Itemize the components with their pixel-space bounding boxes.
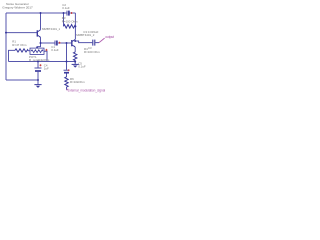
svg-text:0.1uF: 0.1uF bbox=[78, 65, 86, 69]
transistor Q2 emitter arrow bbox=[74, 46, 76, 48]
potentiometer POT1 bbox=[30, 48, 44, 54]
wire C5 to R6 bbox=[66, 73, 68, 77]
wire R1 to POT1 bbox=[28, 50, 30, 52]
svg-text:output: output bbox=[105, 35, 114, 39]
svg-text:0.1uF: 0.1uF bbox=[51, 48, 59, 52]
svg-text:R=47 Ohm: R=47 Ohm bbox=[12, 43, 27, 47]
wire Q1 emitter to node A bbox=[40, 37, 42, 43]
wire R1 loop bbox=[9, 50, 16, 61]
wire right rail (rail corner to Q2 collector) bbox=[74, 13, 76, 39]
node rail-Q1 base wire bbox=[5, 32, 7, 34]
wire Q2 emitter to R4 bbox=[74, 47, 76, 52]
svg-text:R=100 Ohm: R=100 Ohm bbox=[62, 19, 78, 23]
svg-text:1uF: 1uF bbox=[44, 67, 49, 71]
potentiometer POT1 wiper arrow bbox=[36, 47, 38, 49]
transistor Q1 emitter arrow bbox=[39, 36, 41, 38]
wire node B drop to bottom bus bbox=[66, 43, 68, 62]
wire ground stub right bbox=[74, 62, 76, 65]
wire left rail bbox=[5, 13, 7, 80]
capacitor C4 bbox=[35, 64, 42, 71]
potentiometer POT1 label bbox=[29, 55, 50, 62]
wire bottom bus bbox=[9, 61, 76, 63]
wire Q2 collector to C3 output bbox=[75, 41, 92, 43]
node Q2 collector-output bbox=[74, 40, 76, 42]
svg-text:0.1uF: 0.1uF bbox=[62, 6, 70, 10]
wire Q1 collector drop bbox=[40, 13, 42, 30]
node C4-ground wire bbox=[37, 79, 39, 81]
wire R4 bottom to bus/ground bbox=[74, 60, 76, 63]
capacitor C2 bbox=[67, 11, 73, 16]
capacitor C3 bbox=[93, 40, 95, 46]
transistor Q2 bbox=[72, 39, 75, 47]
ground (right, below R4) bbox=[72, 64, 79, 67]
svg-text:R=100 Ohm: R=100 Ohm bbox=[84, 50, 100, 54]
node bus-C4 bbox=[37, 61, 39, 63]
node A emitter junction bbox=[40, 42, 42, 44]
resistor R4 label bbox=[84, 47, 100, 54]
resistor R6 label bbox=[70, 77, 85, 84]
wire C3 to output flag bbox=[95, 42, 99, 44]
red marker near POT1 pin bbox=[45, 49, 47, 51]
capacitor C5 bbox=[64, 69, 70, 72]
svg-text:R=10kOhm: R=10kOhm bbox=[70, 80, 85, 84]
title text bbox=[2, 2, 33, 9]
wire node A to C1 bbox=[41, 42, 55, 44]
svg-text:C3: C3 bbox=[88, 46, 92, 50]
node rail-Q1 bbox=[40, 12, 42, 14]
wire left rail to Q1 base bbox=[6, 32, 37, 34]
wire C1 to Q2 base bbox=[58, 42, 72, 44]
wire top rail bbox=[6, 12, 75, 14]
svg-text:MMBT4401_2: MMBT4401_2 bbox=[76, 33, 95, 37]
resistor R3 bbox=[64, 25, 76, 29]
resistor R1 label bbox=[12, 40, 27, 47]
net label external_modulation_signal bbox=[67, 89, 69, 90]
node R3-collector rail bbox=[74, 25, 76, 27]
svg-text:external_modulation_signal: external_modulation_signal bbox=[68, 89, 106, 93]
wire POT1 right pin down to bus bbox=[44, 51, 47, 61]
wire R3 left lead drop bbox=[63, 13, 65, 26]
node B base junction bbox=[66, 42, 68, 44]
node rail-R3 bbox=[63, 12, 65, 14]
net label output bbox=[99, 35, 114, 42]
resistor R4 bbox=[74, 52, 77, 61]
wire R6 to net label bbox=[66, 87, 68, 90]
svg-text:MMBT4401_1: MMBT4401_1 bbox=[42, 27, 61, 31]
wire bottom-left to ground cap bbox=[6, 79, 38, 81]
resistor R1 bbox=[15, 49, 28, 52]
wire C4 chain top bbox=[37, 62, 39, 68]
wire C4 chain bottom to ground bbox=[37, 72, 39, 85]
node bus-R4-ground bbox=[74, 61, 76, 63]
resistor R6 bbox=[65, 77, 68, 87]
wire C5 chain from bus bbox=[66, 62, 68, 70]
node junction dots bbox=[5, 12, 76, 81]
capacitor C5 label bbox=[78, 61, 86, 68]
ground (bottom, below C4) bbox=[34, 85, 41, 88]
svg-text:Gregory Widmer 2017: Gregory Widmer 2017 bbox=[2, 5, 33, 9]
transistor Q1 bbox=[37, 30, 40, 38]
svg-text:R_pot=94kOhm: R_pot=94kOhm bbox=[29, 58, 50, 62]
resistor R3 label bbox=[62, 16, 78, 23]
wire node A to pot wiper bbox=[37, 43, 40, 48]
capacitor C2 label bbox=[62, 3, 70, 10]
capacitor C4 label bbox=[44, 63, 49, 70]
capacitor C1 bbox=[55, 41, 61, 46]
node bus-C5 bbox=[66, 61, 68, 63]
